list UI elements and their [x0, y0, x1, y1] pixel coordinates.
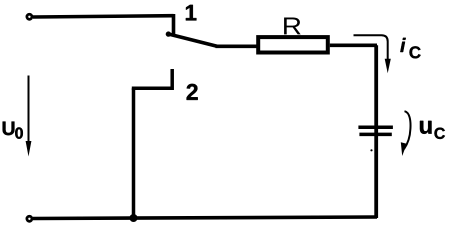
wire right vertical — [374, 45, 378, 218]
terminal bottom-left — [27, 216, 32, 221]
voltage arrow U0 line — [28, 76, 30, 143]
wire branch vertical to contact 2 — [132, 88, 136, 218]
voltage arrow uC curved — [404, 111, 411, 149]
wire branch horizontal — [132, 87, 172, 91]
switch blade pivot dot — [166, 31, 171, 36]
capacitor C top plate — [358, 126, 393, 130]
capacitor C bottom plate — [359, 133, 391, 137]
wire blade to resistor — [216, 44, 259, 48]
speck — [370, 149, 372, 151]
current arrow iC — [354, 35, 388, 61]
label U0 — [3, 122, 23, 139]
junction node dot — [130, 214, 138, 222]
wire bottom from terminal to right corner — [33, 217, 377, 219]
wire top from terminal to switch contact 1 — [33, 16, 174, 17]
label R — [284, 18, 301, 35]
switch blade S1 — [168, 34, 218, 47]
label 2 — [187, 84, 198, 100]
terminal top-left — [27, 14, 32, 19]
switch contact 2 stub — [170, 69, 174, 90]
switch contact 1 drop — [172, 14, 176, 35]
wire resistor to right corner — [330, 43, 377, 47]
label 1 — [186, 5, 196, 20]
resistor R — [258, 37, 328, 52]
label uC — [420, 121, 445, 139]
label iC — [400, 38, 420, 58]
